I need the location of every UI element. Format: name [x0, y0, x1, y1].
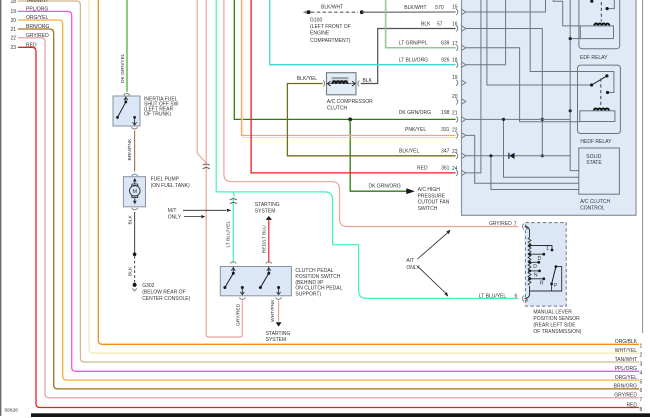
svg-text:BLK/YEL: BLK/YEL [399, 149, 420, 155]
pin 19 stub [456, 80, 458, 86]
svg-text:8: 8 [640, 407, 643, 413]
svg-text:CLUTCH: CLUTCH [327, 106, 348, 112]
svg-text:FUEL PUMP: FUEL PUMP [151, 177, 180, 183]
svg-text:PPL/ORG: PPL/ORG [26, 6, 48, 12]
connector arc below fuel pump [132, 208, 138, 210]
svg-text:SOLID: SOLID [586, 154, 601, 160]
wire RED 361 to pin 24 [251, 0, 456, 173]
connector arc above inertia switch [124, 93, 130, 95]
tap N [530, 270, 539, 272]
svg-text:RED: RED [417, 166, 428, 172]
manual lever position sensor [525, 223, 567, 307]
connector arcs below clutch pedal switch [239, 298, 245, 300]
svg-text:21: 21 [11, 27, 17, 33]
MLP sensor connector arcs [522, 224, 524, 230]
svg-text:TAN/WHT: TAN/WHT [615, 357, 637, 363]
svg-text:CENTER CONSOLE): CENTER CONSOLE) [142, 296, 190, 302]
left row wire labels [26, 0, 49, 48]
CCRM pin connector symbols pins 15-24 [456, 9, 466, 176]
svg-text:5: 5 [640, 379, 643, 385]
svg-text:1: 1 [546, 246, 549, 252]
svg-text:57: 57 [437, 21, 443, 27]
svg-text:ORG/BLK: ORG/BLK [615, 339, 638, 345]
tap 1 [530, 246, 552, 250]
svg-text:21: 21 [452, 111, 458, 117]
CCRM internal wire: pin17 run to HEDF coil low side [466, 48, 580, 122]
svg-text:BLK/YEL: BLK/YEL [297, 76, 318, 82]
node pin16/pin21 junction [541, 118, 544, 121]
svg-text:OF TRUNK): OF TRUNK) [144, 111, 171, 117]
svg-text:STATE: STATE [586, 160, 602, 166]
svg-text:19: 19 [452, 75, 458, 81]
resistor track [525, 227, 530, 238]
svg-text:639: 639 [441, 41, 450, 47]
svg-text:BRN/ORG: BRN/ORG [614, 384, 637, 390]
wire BLK/WHT 570 to pin 15 with G100 splice [303, 10, 456, 14]
svg-text:A/C CLUTCH: A/C CLUTCH [580, 199, 610, 205]
relay HEDF [578, 65, 621, 133]
svg-text:22: 22 [452, 128, 458, 134]
svg-text:ONLY: ONLY [168, 215, 182, 221]
svg-text:RED/LT BLU: RED/LT BLU [262, 225, 268, 253]
svg-text:D: D [533, 264, 537, 270]
svg-text:7: 7 [640, 397, 643, 403]
wire LT BLU/YEL starting system run [216, 0, 518, 298]
svg-text:BRN/ORG: BRN/ORG [26, 24, 49, 30]
connector arcs above clutch pedal switch [230, 262, 236, 264]
LT BLU/YEL branch to clutch switch with inline connector [233, 192, 234, 197]
wire BLK to G302 [134, 212, 136, 253]
svg-text:361: 361 [441, 166, 450, 172]
wire ORG/BLK bus (pin 1) [98, 0, 639, 344]
svg-text:24: 24 [452, 166, 458, 172]
svg-text:BLK: BLK [127, 266, 133, 276]
svg-text:BLK: BLK [363, 78, 373, 84]
wire GRY/RED to MLP sensor pin 7 [224, 0, 518, 227]
wire DK GRN/ORG 198 to pin 21 [234, 0, 455, 119]
connector arc below inertia switch [131, 127, 137, 129]
svg-text:GRY/RED: GRY/RED [489, 221, 512, 227]
pin 16 [456, 26, 458, 32]
node pin23 branch junction [489, 154, 492, 157]
pin 23 [456, 153, 458, 159]
pin 21 [456, 116, 458, 122]
svg-text:(REAR LEFT SIDE: (REAR LEFT SIDE [533, 322, 576, 328]
tap R [530, 278, 544, 280]
svg-text:ONLY: ONLY [406, 265, 420, 271]
pin 22 [456, 132, 458, 138]
node EDF coil ground junction [569, 37, 572, 40]
EDF relay coil [594, 24, 609, 26]
wire BLK/YEL 347 from compressor to pin 23 [287, 84, 455, 156]
connector arc above fuel pump [132, 174, 138, 176]
svg-text:M: M [133, 189, 138, 195]
svg-text:ENGINE: ENGINE [310, 30, 330, 36]
inline connector symbol on GRY/RED [206, 164, 242, 338]
EDF switch contact dot [590, 0, 593, 3]
wire LT GRN/PPL 639 to pin 17 [386, 0, 456, 48]
CCRM internal wire: HEDF NO contact run up [530, 0, 614, 93]
pin 18 [456, 62, 458, 68]
HEDF switch blade [592, 76, 607, 85]
EDF NO contact wire [607, 0, 614, 9]
clutch pedal position switch [220, 267, 291, 296]
svg-text:A/T: A/T [406, 258, 414, 264]
svg-text:BLK/WHT: BLK/WHT [404, 5, 426, 11]
wire GRY/RED clutch switch branch with inline connector [197, 0, 206, 163]
CCRM internal wire: pin24 RED feed up [466, 0, 481, 173]
svg-text:22: 22 [11, 36, 17, 42]
inertia fuel shutoff switch [113, 96, 140, 126]
svg-text:58628: 58628 [5, 408, 19, 414]
svg-text:EDF RELAY: EDF RELAY [580, 55, 608, 61]
svg-text:G302: G302 [142, 283, 154, 289]
svg-text:WHT/YEL: WHT/YEL [615, 348, 637, 354]
CCRM internal wire: pin15 BLK/WHT ground run [466, 0, 546, 12]
wiper P [552, 267, 556, 284]
svg-text:4: 4 [640, 371, 643, 377]
CCRM internal wire: HEDF switch common feed [487, 0, 592, 85]
svg-text:19: 19 [11, 9, 17, 15]
svg-text:N: N [534, 272, 538, 278]
svg-text:SYSTEM: SYSTEM [266, 337, 287, 343]
pin number labels 15-24 [452, 5, 458, 173]
svg-text:LT BLU/ORG: LT BLU/ORG [399, 57, 428, 63]
svg-text:G100: G100 [310, 18, 322, 24]
pin 17 [456, 45, 458, 51]
tap D [530, 253, 544, 255]
frame bottom bar [31, 413, 650, 417]
svg-text:PNK/YEL: PNK/YEL [405, 127, 426, 133]
svg-text:20: 20 [452, 94, 458, 100]
pin 15 [456, 9, 458, 15]
switch 1 [232, 267, 234, 274]
HEDF NO contact [606, 91, 609, 94]
svg-text:ORG/YEL: ORG/YEL [26, 15, 48, 21]
svg-text:17: 17 [452, 41, 458, 47]
tap D2 [530, 261, 539, 263]
wire LT BLU/ORG 926 to pin 18 [270, 0, 456, 65]
bottom rail [530, 267, 562, 291]
HEDF switch common [590, 83, 593, 86]
svg-text:ORG/YEL: ORG/YEL [615, 375, 637, 381]
svg-text:GRY/RED: GRY/RED [235, 303, 241, 326]
svg-text:MANUAL LEVER: MANUAL LEVER [533, 309, 572, 315]
CCRM internal wire: pin23 A/C clutch run [466, 156, 579, 190]
ground G302 [133, 283, 137, 287]
frame left border [0, 0, 2, 416]
CCRM internal wire: pin21 ACCS run [466, 119, 579, 177]
svg-text:BLK: BLK [421, 21, 431, 27]
svg-text:R: R [540, 280, 544, 286]
node DK GRN/ORG branch junction [348, 118, 352, 122]
svg-text:PPL/ORG: PPL/ORG [615, 366, 637, 372]
svg-text:3: 3 [640, 361, 643, 367]
fuel pump motor [123, 177, 145, 207]
svg-text:(ON FUEL TANK): (ON FUEL TANK) [151, 183, 190, 189]
svg-text:LT GRN/PPL: LT GRN/PPL [399, 41, 428, 47]
CCRM module box [462, 0, 637, 215]
pin 6 entry [525, 291, 530, 298]
svg-text:LT BLU/YEL: LT BLU/YEL [479, 293, 507, 299]
svg-text:2: 2 [640, 353, 643, 359]
wire WHT/PNK to starting system [278, 301, 280, 322]
svg-text:HEDF RELAY: HEDF RELAY [580, 139, 612, 145]
svg-text:198: 198 [441, 110, 450, 116]
CCRM internal wire: pin16 BLK run down to pins 21/23 [466, 29, 542, 156]
svg-text:16: 16 [452, 21, 458, 27]
svg-text:570: 570 [435, 5, 444, 11]
svg-text:GRY/RED: GRY/RED [26, 33, 49, 39]
svg-text:BLK: BLK [127, 215, 133, 225]
wire WHT/YEL bus (pin 2) [89, 0, 639, 353]
pin 20 stub [456, 99, 458, 105]
svg-text:926: 926 [441, 57, 450, 63]
svg-text:GRY/RED: GRY/RED [614, 393, 637, 399]
svg-text:1: 1 [640, 344, 643, 350]
frame right border [642, 0, 644, 333]
bottom bus pin numbers [640, 344, 643, 413]
node splice on BLK wire [133, 253, 137, 257]
svg-text:15: 15 [452, 5, 458, 11]
svg-text:CUTOUT FAN: CUTOUT FAN [418, 200, 450, 206]
svg-text:M/T: M/T [168, 208, 177, 214]
HEDF armature dashed link [600, 79, 602, 108]
svg-text:STARTING: STARTING [266, 331, 291, 337]
svg-text:WHT/PNK: WHT/PNK [270, 299, 276, 322]
switch 2 [268, 267, 270, 274]
svg-text:347: 347 [441, 149, 450, 155]
svg-text:23: 23 [452, 149, 458, 155]
EDF armature dashed link [600, 2, 602, 22]
connector arc right of compressor clutch [358, 80, 359, 86]
svg-text:BRN/PNK: BRN/PNK [127, 138, 133, 160]
svg-text:TAN/WHT: TAN/WHT [26, 0, 48, 4]
relay EDF (top cut off) [579, 0, 620, 49]
svg-text:23: 23 [11, 45, 17, 51]
CCRM internal wire: pin18 run up [466, 0, 506, 65]
svg-text:DK GRN/ORG: DK GRN/ORG [399, 110, 431, 116]
node HEDF coil ground junction [569, 109, 572, 112]
wire DK GRN/ORG branch to A/C high pressure cutout fan switch [350, 119, 406, 191]
svg-text:SWITCH: SWITCH [418, 206, 438, 212]
CCRM internal wire: EDF coil feed jog [553, 0, 580, 26]
svg-text:D: D [538, 256, 542, 262]
wire BRN/PNK to fuel pump [134, 131, 136, 172]
svg-text:COMPARTMENT): COMPARTMENT) [310, 38, 351, 44]
bottom bus labels right side [614, 339, 638, 408]
svg-text:RED: RED [26, 42, 37, 48]
A/C compressor clutch [327, 73, 357, 95]
wire DK GRN/YEL to inertia switch [126, 0, 128, 92]
svg-text:18: 18 [11, 0, 17, 5]
svg-text:A/C HIGH: A/C HIGH [418, 187, 441, 193]
svg-text:DK GRN/YEL: DK GRN/YEL [120, 53, 126, 83]
A/C clutch control solid state box [579, 148, 620, 194]
svg-text:LT BLU/YEL: LT BLU/YEL [225, 220, 231, 247]
svg-text:7: 7 [514, 222, 517, 228]
node pin21 branch junction [502, 118, 505, 121]
svg-text:CONTROL: CONTROL [580, 206, 605, 212]
svg-text:OF TRANSMISSION): OF TRANSMISSION) [533, 329, 581, 335]
svg-text:(LEFT FRONT OF: (LEFT FRONT OF [310, 24, 351, 30]
svg-text:SUPPORT): SUPPORT) [295, 291, 321, 297]
svg-text:BLK/WHT: BLK/WHT [321, 5, 343, 11]
diode CR1 clutch diode [509, 153, 515, 159]
pin 24 [456, 170, 458, 176]
wire BLK 57 from compressor to pin 16 [361, 29, 456, 84]
svg-text:PRESSURE: PRESSURE [418, 193, 446, 199]
svg-text:(BELOW REAR OF: (BELOW REAR OF [142, 290, 185, 296]
svg-text:RED: RED [626, 402, 637, 408]
wire PNK/YEL 331 to pin 22 [243, 0, 456, 138]
CCRM internal wire: pin22 run to solid state [466, 135, 579, 183]
node pin16/pin23 junction [541, 154, 544, 157]
svg-text:20: 20 [11, 18, 17, 24]
connector arc left of compressor clutch [323, 80, 324, 86]
svg-text:18: 18 [452, 58, 458, 64]
svg-text:STARTING: STARTING [255, 202, 280, 208]
svg-text:A/C COMPRESSOR: A/C COMPRESSOR [327, 99, 373, 105]
left row numbers [11, 0, 17, 51]
svg-text:DK GRN/ORG: DK GRN/ORG [369, 184, 401, 190]
svg-text:6: 6 [640, 388, 643, 394]
svg-text:6: 6 [515, 294, 518, 300]
svg-text:POSITION SENSOR: POSITION SENSOR [533, 316, 580, 322]
CCRM internal wire: coil ground rail [570, 0, 580, 171]
svg-text:331: 331 [441, 127, 450, 133]
HEDF relay coil [594, 108, 609, 110]
svg-text:SYSTEM: SYSTEM [255, 209, 276, 215]
